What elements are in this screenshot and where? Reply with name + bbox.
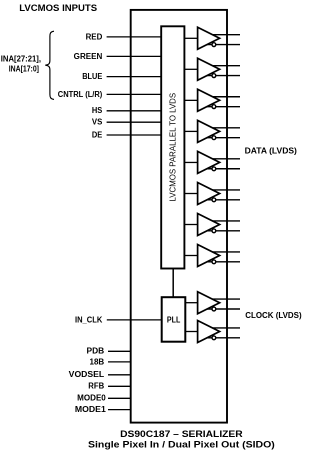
wire: buffer A7 noninverting output [206, 220, 240, 222]
wire: input stub to data buffer A5 [184, 161, 197, 163]
LVDS clock buffer C2 [198, 321, 220, 343]
wire: buffer A8 noninverting output [206, 251, 240, 253]
svg-text:MODE1: MODE1 [75, 405, 106, 414]
clock buffer C1 inversion bubble [212, 307, 216, 311]
wire DE input [107, 134, 162, 136]
wire CNTRL input [107, 93, 162, 95]
wire RFB input [108, 385, 131, 387]
buffer A6 inversion bubble [212, 198, 216, 202]
wire: input stub to data buffer A6 [184, 193, 197, 195]
svg-text:CNTRL (L/R): CNTRL (L/R) [58, 90, 103, 99]
wire: input stub to data buffer A2 [184, 68, 197, 70]
LVDS output buffer A7 [198, 214, 220, 236]
wire: clock buffer C2 noninverting output [206, 327, 240, 329]
svg-text:DATA (LVDS): DATA (LVDS) [245, 146, 298, 155]
wire: buffer A2 inverting output [206, 75, 240, 77]
wire MODE0 input [108, 397, 131, 399]
wire VODSEL input [108, 374, 131, 376]
LVDS output buffer A4 [198, 120, 220, 142]
LVDS output buffer A1 [198, 27, 220, 49]
LVDS output buffer A2 [198, 58, 220, 80]
wire: clock buffer C1 inverting output [206, 308, 240, 310]
buffer A5 inversion bubble [212, 167, 216, 171]
wire RED input [107, 36, 162, 38]
svg-text:18B: 18B [90, 357, 105, 366]
wire MODE1 input [108, 409, 131, 411]
svg-text:INA[27:21],: INA[27:21], [1, 55, 41, 64]
wire: buffer A4 noninverting output [206, 127, 240, 129]
wire: buffer A3 noninverting output [206, 96, 240, 98]
LVDS clock buffer C1 [198, 292, 220, 314]
buffer A2 inversion bubble [212, 74, 216, 78]
svg-text:MODE0: MODE0 [77, 394, 106, 403]
LVDS output buffer A6 [198, 183, 220, 205]
svg-text:LVCMOS PARALLEL TO LVDS: LVCMOS PARALLEL TO LVDS [168, 93, 177, 202]
wire: PLL output stub to clock buffer C1 [185, 302, 197, 304]
wire: buffer A6 inverting output [206, 199, 240, 201]
wire: input stub to data buffer A8 [184, 255, 197, 257]
wire: buffer A2 noninverting output [206, 65, 240, 67]
wire VS input [107, 121, 162, 123]
buffer A4 inversion bubble [212, 136, 216, 140]
wire: input stub to data buffer A7 [184, 224, 197, 226]
wire HS input [107, 110, 162, 112]
wire: buffer A4 inverting output [206, 137, 240, 139]
wire 18B input [108, 361, 131, 363]
svg-text:IN_CLK: IN_CLK [75, 315, 103, 324]
wire: buffer A1 noninverting output [206, 34, 240, 36]
buffer A3 inversion bubble [212, 105, 216, 109]
svg-text:DE: DE [92, 130, 103, 139]
svg-text:Single Pixel In / Dual Pixel O: Single Pixel In / Dual Pixel Out (SIDO) [88, 439, 275, 449]
buffer A8 inversion bubble [212, 260, 216, 264]
wire IN_CLK input [107, 319, 162, 321]
svg-text:GREEN: GREEN [74, 52, 103, 61]
svg-text:RFB: RFB [88, 382, 104, 391]
wire: input stub to data buffer A3 [184, 99, 197, 101]
wire: buffer A8 inverting output [206, 261, 240, 263]
PLL block U2 [162, 297, 186, 342]
wire: buffer A1 inverting output [206, 44, 240, 46]
wire BLUE input [107, 76, 162, 78]
wire GREEN input [107, 55, 162, 57]
buffer A1 inversion bubble [212, 43, 216, 47]
wire: PLL output stub to clock buffer C2 [185, 331, 197, 333]
wire: buffer A7 inverting output [206, 230, 240, 232]
wire: buffer A6 noninverting output [206, 189, 240, 191]
svg-text:DS90C187 – SERIALIZER: DS90C187 – SERIALIZER [120, 429, 243, 439]
clock buffer C2 inversion bubble [212, 336, 216, 340]
chip outline U1 DS90C187 serializer [131, 10, 227, 423]
LVDS output buffer A3 [198, 89, 220, 111]
svg-text:VODSEL: VODSEL [69, 370, 105, 379]
brace grouping INA inputs [45, 31, 54, 99]
wire: buffer A3 inverting output [206, 106, 240, 108]
svg-text:PLL: PLL [167, 316, 181, 325]
wire: buffer A5 noninverting output [206, 158, 240, 160]
wire PDB input [108, 350, 131, 352]
svg-text:HS: HS [92, 106, 103, 115]
wire: clock buffer C1 noninverting output [206, 298, 240, 300]
LVDS output buffer A8 [198, 245, 220, 267]
block B1: LVCMOS PARALLEL TO LVDS converter [161, 26, 184, 268]
svg-text:BLUE: BLUE [82, 72, 103, 81]
wire: input stub to data buffer A1 [184, 37, 197, 39]
svg-text:VS: VS [92, 118, 103, 127]
svg-text:PDB: PDB [87, 347, 105, 356]
wire: clock buffer C2 inverting output [206, 337, 240, 339]
svg-text:RED: RED [86, 32, 103, 41]
wire: input stub to data buffer A4 [184, 130, 197, 132]
svg-text:LVCMOS INPUTS: LVCMOS INPUTS [19, 3, 97, 13]
wire: buffer A5 inverting output [206, 168, 240, 170]
wire: B1 to PLL clock connector [172, 269, 174, 298]
buffer A7 inversion bubble [212, 229, 216, 233]
svg-text:CLOCK (LVDS): CLOCK (LVDS) [245, 311, 302, 320]
LVDS output buffer A5 [198, 151, 220, 173]
svg-text:INA[17:0]: INA[17:0] [9, 64, 40, 73]
